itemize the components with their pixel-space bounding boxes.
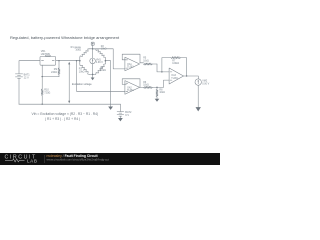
CircuitLab logo: [5, 154, 38, 163]
wire OA1 feedback loop: [122, 54, 140, 63]
wire battery to regulator IN: [19, 61, 40, 74]
ground at bridge right leg: [110, 104, 112, 106]
resistor R7 (feedback): [162, 57, 187, 76]
svg-text:LAB: LAB: [27, 159, 37, 164]
svg-text:R7: R7: [172, 60, 176, 62]
svg-text:( R1 + R3 ) ∙ ( R2 + R4 ): ( R1 + R3 ) ∙ ( R2 + R4 ): [45, 117, 80, 121]
voltmeter VM2: [195, 79, 210, 86]
wire flag to bridge top: [92, 45, 94, 49]
svg-text:9 V: 9 V: [125, 114, 129, 117]
svg-text:720Ω: 720Ω: [44, 91, 50, 94]
svg-text:100kΩ: 100kΩ: [172, 63, 179, 65]
battery BAT2: [117, 111, 132, 117]
op-amp OA3: [169, 68, 183, 84]
bottom rail: [19, 103, 120, 105]
wire regulator OUT to bridge: [56, 60, 80, 62]
resistor R10 (divider bottom): [41, 77, 50, 105]
svg-text:10kΩ: 10kΩ: [143, 60, 149, 62]
wire bridge centre upper: [92, 49, 94, 58]
op-amp OA1: [125, 57, 140, 71]
svg-text:10kΩ: 10kΩ: [79, 70, 85, 73]
svg-text:OA1: OA1: [127, 63, 132, 66]
wire R6 to OA3 +input: [156, 87, 157, 88]
ground below VM2: [196, 107, 201, 111]
wire bridge left to OA2 input: [77, 61, 125, 92]
ground at bridge bottom: [92, 74, 94, 77]
svg-text:240Ω: 240Ω: [51, 71, 57, 74]
annotation bridge formula: [32, 112, 99, 121]
wire bridge top to OA1 +input: [93, 49, 125, 69]
wire bridge right to ground: [105, 61, 110, 104]
resistor R6: [140, 82, 157, 89]
svg-text:10kΩ: 10kΩ: [159, 92, 165, 94]
svg-text:Vth = Excitation voltage × (: Vth = Excitation voltage × (R2 ∙ R3 − R1…: [32, 112, 99, 116]
battery BAT1: [15, 73, 30, 79]
svg-text:10kΩ: 10kΩ: [100, 69, 106, 72]
node bridge top: [92, 48, 94, 50]
node bridge bottom: [92, 74, 94, 76]
wire rail to BAT2: [119, 104, 121, 111]
svg-text:TL081: TL081: [127, 90, 134, 92]
svg-text:R5: R5: [143, 58, 147, 60]
footer separator: [44, 155, 46, 163]
resistor R4 (bridge arm bottom-right): [93, 61, 106, 75]
resistor R5: [140, 58, 157, 65]
wire OA2 feedback loop: [122, 79, 140, 88]
op-amp OA2: [125, 81, 140, 95]
footer text: [47, 154, 110, 161]
resistor R1 (bridge arm top-left): [71, 46, 93, 61]
svg-text:Excitation voltage: Excitation voltage: [72, 83, 92, 86]
wire regulator ADJ pin: [42, 65, 59, 76]
wire BAT2 to ground: [119, 116, 121, 118]
svg-text:TL081: TL081: [171, 78, 178, 80]
svg-text:OA2: OA2: [127, 86, 132, 89]
ground below R8: [155, 99, 160, 102]
svg-text:Regulated, battery-powered Whe: Regulated, battery-powered Wheatstone br…: [10, 35, 120, 40]
svg-text:TL081: TL081: [127, 67, 134, 69]
svg-text:4.99 V: 4.99 V: [96, 61, 103, 64]
wire R5 to OA3 -input: [157, 64, 169, 72]
svg-text:0.00 V: 0.00 V: [202, 82, 209, 85]
svg-text:OA3: OA3: [171, 74, 176, 77]
svg-text:R8: R8: [159, 89, 163, 91]
node bridge left: [79, 60, 81, 62]
net flag at bridge top: [91, 42, 94, 45]
resistor R2 (bridge arm top-right): [93, 45, 107, 61]
wire battery to rail: [18, 78, 20, 104]
resistor R9 (divider top): [51, 60, 60, 77]
svg-text:10kΩ: 10kΩ: [75, 49, 81, 52]
resistor R8 (to ground): [156, 87, 165, 98]
voltage regulator VR1: [40, 50, 56, 65]
wire OA3 output: [186, 75, 187, 76]
node bridge right: [105, 60, 107, 62]
ground below BAT2: [118, 118, 123, 121]
svg-text:www.circuitlab.com/circuit/8ya: www.circuitlab.com/circuit/8ya3hb2rq6/fn…: [47, 157, 110, 161]
node excitation tap: [76, 60, 77, 61]
svg-text:R6: R6: [143, 82, 147, 84]
svg-text:LM7805: LM7805: [41, 53, 51, 56]
resistor R3 (bridge arm bottom-left): [79, 61, 93, 75]
annotation excitation voltage arrows: [68, 62, 92, 104]
svg-text:12 V: 12 V: [24, 76, 29, 79]
wire bridge centre lower: [92, 64, 94, 75]
footer bar: [0, 153, 220, 165]
wire VM2 to ground: [197, 85, 199, 107]
svg-text:10kΩ: 10kΩ: [143, 85, 149, 87]
voltmeter VM1: [90, 58, 103, 64]
